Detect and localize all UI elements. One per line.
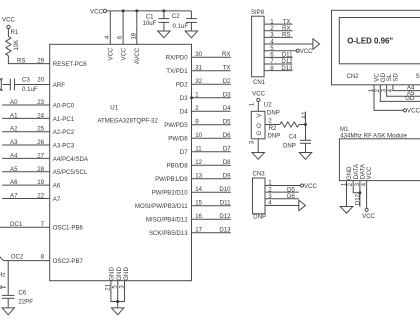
svg-text:2: 2 (195, 105, 199, 112)
wire CN1 pin 5 to VCC (264, 50, 296, 52)
svg-text:MOSI/PW/PB3/D11: MOSI/PW/PB3/D11 (135, 203, 188, 210)
svg-text:A5/PC5/SCL: A5/PC5/SCL (53, 169, 88, 176)
wire net A2 to U1 pin 25 (2, 131, 50, 133)
resistor R1 10K (6, 29, 19, 56)
svg-text:VCC: VCC (252, 91, 265, 98)
svg-text:D7: D7 (180, 149, 188, 156)
wire net RX from U1 pin 30 (192, 56, 231, 58)
wire CN1 pin 8 net D13 (264, 70, 292, 72)
svg-text:RX: RX (222, 51, 230, 58)
wire OSC1 (OC1) to U1 pin 7 (0, 226, 50, 228)
svg-text:28: 28 (37, 166, 44, 173)
svg-text:CN1: CN1 (253, 79, 266, 86)
svg-text:SCK/PB5/D13: SCK/PB5/D13 (149, 230, 188, 237)
svg-text:0.1uF: 0.1uF (22, 86, 38, 93)
wire CN2 pin 2 net GD (380, 85, 420, 102)
svg-text:1: 1 (249, 102, 256, 106)
ground (U1 GND) (112, 308, 124, 315)
wire C3 to U1 ARF (15, 84, 50, 86)
svg-text:29: 29 (37, 57, 44, 64)
svg-text:U1: U1 (110, 105, 118, 112)
svg-text:VCC: VCC (366, 166, 373, 179)
svg-text:26: 26 (37, 139, 44, 146)
svg-text:31: 31 (195, 65, 202, 72)
svg-text:TX: TX (223, 65, 231, 72)
wire CN1 pin 2 net RX (264, 30, 292, 32)
svg-text:A3-PC3: A3-PC3 (53, 142, 75, 149)
svg-text:A4/PC4/SDA: A4/PC4/SDA (53, 156, 89, 163)
svg-text:PW/D6: PW/D6 (168, 136, 188, 143)
ground (C1) (158, 31, 170, 38)
svg-text:8: 8 (270, 65, 274, 72)
wire OC2 down to C6 (7, 261, 9, 296)
svg-text:D9: D9 (223, 173, 231, 180)
svg-text:23: 23 (37, 99, 44, 106)
wire CN2 pin 3 net A5 (387, 85, 420, 97)
svg-text:25: 25 (37, 126, 44, 133)
U1 left pin names (53, 61, 89, 265)
junction on VCC rail (pin 6) (122, 9, 125, 12)
svg-text:MISO/PB4/D12: MISO/PB4/D12 (146, 217, 188, 224)
wire net D13 from U1 pin 17 (192, 232, 231, 234)
svg-text:D5: D5 (223, 119, 231, 126)
svg-text:A2: A2 (10, 126, 18, 133)
svg-text:12: 12 (195, 159, 202, 166)
svg-text:A1: A1 (10, 112, 18, 119)
svg-text:17: 17 (195, 227, 202, 234)
junction on VCC rail (C1) (162, 9, 165, 12)
svg-text:U2: U2 (264, 102, 272, 109)
svg-text:A5: A5 (10, 166, 18, 173)
svg-text:D6: D6 (223, 132, 231, 139)
svg-text:O: O (256, 123, 263, 128)
svg-text:OC2: OC2 (11, 254, 24, 261)
capacitor C2 (172, 11, 197, 31)
svg-text:20: 20 (37, 77, 44, 84)
wire net D3 from U1 pin 1 (192, 97, 231, 99)
net stub A1 (305, 112, 307, 125)
svg-text:DNP: DNP (283, 143, 296, 150)
U2 body (251, 111, 265, 139)
ground (C6) (2, 308, 14, 315)
svg-text:PW/PB2/D10: PW/PB2/D10 (152, 190, 189, 197)
svg-text:O-LED 0.96": O-LED 0.96" (347, 37, 393, 46)
wire U1 pin 18 AVCC (136, 11, 138, 44)
wire R2 to node A1 (299, 124, 306, 126)
wire CN3 pin 2 net D5 (265, 191, 299, 193)
svg-text:D12: D12 (219, 213, 231, 220)
wire net D7 from U1 pin 11 (192, 151, 231, 153)
svg-text:VCC: VCC (90, 8, 103, 15)
ground (M1 pin 1) (340, 207, 353, 214)
svg-text:VCC: VCC (2, 16, 15, 23)
svg-text:C4: C4 (289, 133, 297, 140)
svg-text:PB0/D8: PB0/D8 (167, 163, 189, 170)
svg-text:GND: GND (123, 267, 130, 281)
capacitor C4 (289, 125, 311, 153)
svg-text:0.1uF: 0.1uF (173, 23, 189, 30)
wire net D6 from U1 pin 10 (192, 137, 231, 139)
svg-text:RS: RS (17, 57, 25, 64)
wire arrow to C3 (3, 84, 11, 86)
svg-text:4: 4 (104, 35, 111, 39)
wire net D5 from U1 pin 9 (192, 124, 231, 126)
svg-text:CN3: CN3 (253, 170, 266, 177)
svg-text:6: 6 (117, 35, 124, 39)
svg-text:AVCC: AVCC (134, 47, 141, 64)
wire M1 pin 3 net D12 (359, 181, 361, 207)
wire R1 to U1 RESET pin 29 (8, 56, 49, 64)
svg-text:24: 24 (37, 112, 44, 119)
junction below U1 GND (116, 300, 119, 303)
svg-text:18: 18 (130, 32, 137, 39)
wire net A5 to U1 pin 28 (2, 171, 50, 173)
svg-text:D2: D2 (223, 78, 231, 85)
wire net A0 to U1 pin 23 (2, 104, 50, 106)
svg-text:VCC: VCC (300, 48, 313, 55)
off-page arrow (CN1 pin 4) (313, 39, 320, 50)
wire CN1 pin 4 to off-page arrow (264, 43, 313, 45)
svg-text:D6: D6 (287, 193, 295, 200)
wire M1 pin 4 to VCC (366, 181, 368, 209)
svg-text:30: 30 (195, 51, 202, 58)
svg-text:9: 9 (195, 119, 199, 126)
svg-text:D4: D4 (223, 105, 231, 112)
svg-text:C3: C3 (22, 77, 30, 84)
wire net TX from U1 pin 31 (192, 70, 231, 72)
svg-text:16: 16 (195, 213, 202, 220)
svg-text:SD: SD (393, 73, 400, 82)
svg-text:D7: D7 (223, 146, 231, 153)
svg-text:RESET-PC6: RESET-PC6 (53, 61, 87, 68)
svg-text:ATMEGA328TQPF-32: ATMEGA328TQPF-32 (97, 118, 158, 125)
power symbol VCC (CN2 pin 1) (403, 108, 420, 115)
svg-text:VCC: VCC (407, 108, 420, 115)
ground (U2 pin 3) (252, 153, 264, 160)
svg-text:10: 10 (195, 132, 202, 139)
svg-text:A1-PC1: A1-PC1 (53, 116, 75, 123)
svg-text:RX/PD0: RX/PD0 (166, 55, 189, 62)
wire net D10 from U1 pin 14 (192, 191, 231, 193)
svg-text:4: 4 (268, 200, 272, 207)
svg-text:PW/PD5: PW/PD5 (164, 122, 188, 129)
module CN2 O-LED outer body (332, 10, 420, 85)
svg-text:10K: 10K (13, 40, 20, 51)
svg-text:C6: C6 (18, 289, 26, 296)
svg-text:22: 22 (37, 192, 44, 199)
svg-text:RS: RS (282, 32, 290, 39)
capacitor C1 (146, 11, 170, 31)
svg-text:A0: A0 (10, 99, 18, 106)
svg-text:D11: D11 (220, 200, 231, 207)
svg-text:SIP4: SIP4 (416, 73, 420, 80)
wire net D9 from U1 pin 13 (192, 178, 231, 180)
power symbol VCC (top rail) (90, 8, 106, 15)
wire net A6 to U1 pin 19 (2, 184, 50, 186)
wire CN3 pin 1 to VCC (265, 185, 301, 187)
svg-text:A4: A4 (407, 84, 415, 91)
svg-text:A7: A7 (53, 196, 61, 203)
svg-text:14: 14 (195, 186, 202, 193)
wire net D4 from U1 pin 2 (192, 110, 231, 112)
crystal X1 (clipped at left edge) (1, 285, 6, 289)
svg-text:D13: D13 (281, 65, 293, 72)
wire M1 pin 2 to pin 3 (DATA) (353, 181, 360, 193)
junction marker at U1 pin 1 (D3) (190, 96, 193, 99)
wire net A3 to U1 pin 26 (2, 144, 50, 146)
power symbol VCC (U2 pin 1) (252, 91, 265, 102)
wire OSC2 (OC2) to U1 pin 8 (0, 257, 50, 261)
svg-text:TX/PD1: TX/PD1 (166, 68, 188, 75)
svg-text:13: 13 (195, 173, 202, 180)
wire U2 pin 2 to R2 (265, 124, 280, 126)
resistor R2 (280, 122, 299, 127)
svg-text:A7: A7 (10, 192, 18, 199)
svg-text:VCC: VCC (362, 213, 375, 220)
svg-text:A2-PC2: A2-PC2 (53, 129, 75, 136)
svg-text:PD2: PD2 (176, 82, 188, 89)
junction M1 DATA (358, 191, 361, 194)
U1 bottom power pin names GND GND GND (109, 267, 130, 281)
svg-text:11: 11 (195, 146, 202, 153)
connector CN3 body (253, 178, 266, 214)
wire CN2 pin 1 to VCC (374, 85, 403, 111)
wire CN3 pin 4 to off-page arrow (265, 204, 299, 206)
wire VCC to U2 pin 1 (257, 102, 259, 112)
off-page arrow (CN3 pin 4) (299, 200, 306, 211)
U1 right pin names (135, 55, 188, 238)
svg-text:D10: D10 (219, 186, 231, 193)
svg-text:R1: R1 (11, 29, 19, 36)
wire U2 pin 3 to ground (257, 139, 259, 153)
svg-text:D4: D4 (180, 109, 188, 116)
svg-text:A4: A4 (10, 152, 18, 159)
svg-text:PW/PB1/D9: PW/PB1/D9 (155, 176, 188, 183)
wire U1 pin 6 VCC (122, 11, 124, 44)
svg-text:VCC: VCC (304, 183, 317, 190)
off-page arrow to C3 (clipped at left edge) (0, 79, 3, 91)
svg-text:DNP: DNP (267, 110, 280, 117)
wire net D2 from U1 pin 32 (192, 83, 231, 85)
svg-text:CN2: CN2 (347, 73, 360, 80)
svg-text:A1: A1 (301, 111, 308, 119)
connector CN1 SIP8 body (252, 16, 265, 77)
svg-text:A0-PC0: A0-PC0 (53, 102, 75, 109)
svg-text:SIP8: SIP8 (251, 9, 265, 16)
svg-text:22PF: 22PF (18, 298, 33, 305)
svg-text:A6: A6 (53, 183, 61, 190)
power symbol VCC (R1 pull-up) (2, 16, 15, 28)
svg-text:2: 2 (268, 118, 272, 125)
wire net D11 from U1 pin 15 (192, 205, 231, 207)
wire CN1 pin 3 net RS (264, 36, 292, 38)
svg-text:VCC: VCC (108, 47, 115, 60)
svg-text:D3: D3 (223, 92, 231, 99)
wire net A1 to U1 pin 24 (2, 117, 50, 119)
junction at A1 node (304, 123, 307, 126)
svg-text:DNP: DNP (253, 214, 266, 221)
wire CN1 pin 6 net D11 (264, 56, 292, 58)
wire CN3 pin 3 net D6 (265, 198, 299, 200)
O-LED screen inner box (339, 18, 420, 64)
M1 body (339, 139, 420, 181)
wire CN2 pin 4 net A4 (393, 85, 420, 91)
capacitor C6 (2, 289, 27, 308)
U1 top power pin names VCC VCC AVCC (108, 47, 142, 64)
svg-text:OC1: OC1 (10, 221, 23, 228)
svg-text:OSC2-PB7: OSC2-PB7 (53, 258, 84, 265)
svg-text:32: 32 (195, 78, 202, 85)
svg-text:A6: A6 (10, 179, 18, 186)
svg-text:GND: GND (116, 267, 123, 281)
wire CN1 pin 7 net D12 (264, 63, 292, 65)
wire M1 pin 1 to ground (346, 181, 348, 207)
svg-text:DNP: DNP (268, 132, 281, 139)
power symbol VCC (CN3 pin 1) (301, 183, 318, 190)
svg-text:19: 19 (37, 179, 44, 186)
svg-text:D13: D13 (219, 227, 231, 234)
wire net A7 to U1 pin 22 (2, 197, 50, 199)
wire net D8 from U1 pin 12 (192, 164, 231, 166)
junction on VCC rail (pin 18) (135, 9, 138, 12)
ground (C2) (185, 31, 197, 38)
wire U1 pin 4 VCC (109, 11, 111, 44)
ground (C4) (299, 153, 311, 160)
wire U1 GND pins 21/5/3 to ground (111, 281, 125, 308)
svg-text:27: 27 (37, 152, 44, 159)
svg-text:A3: A3 (10, 139, 18, 146)
wire net A4 to U1 pin 27 (2, 157, 50, 159)
svg-text:ARF: ARF (53, 82, 65, 89)
svg-text:16MHz: 16MHz (0, 272, 5, 279)
power symbol VCC (M1 pin 4) (362, 208, 375, 220)
svg-text:GND: GND (109, 267, 116, 281)
svg-text:10uF: 10uF (143, 20, 157, 27)
capacitor C3 (10, 77, 30, 91)
svg-text:D12: D12 (355, 193, 362, 205)
svg-text:R2: R2 (269, 125, 277, 132)
svg-text:D8: D8 (223, 159, 231, 166)
svg-text:D3: D3 (180, 95, 188, 102)
svg-text:1: 1 (195, 92, 199, 99)
wire CN1 pin 1 net TX (264, 23, 292, 25)
power symbol VCC (CN1 pin 5) (296, 48, 313, 55)
wire net D12 from U1 pin 16 (192, 218, 231, 220)
svg-text:3: 3 (249, 140, 256, 144)
svg-text:C2: C2 (172, 13, 180, 20)
svg-text:OSC1-PB6: OSC1-PB6 (53, 225, 84, 232)
svg-text:8: 8 (41, 254, 45, 261)
svg-text:VCC: VCC (120, 47, 127, 60)
wire VCC rail (107, 10, 192, 12)
svg-text:G: G (256, 130, 263, 135)
IC U1 ATMEGA328TQPF-32 body (50, 44, 192, 280)
svg-text:15: 15 (195, 200, 202, 207)
